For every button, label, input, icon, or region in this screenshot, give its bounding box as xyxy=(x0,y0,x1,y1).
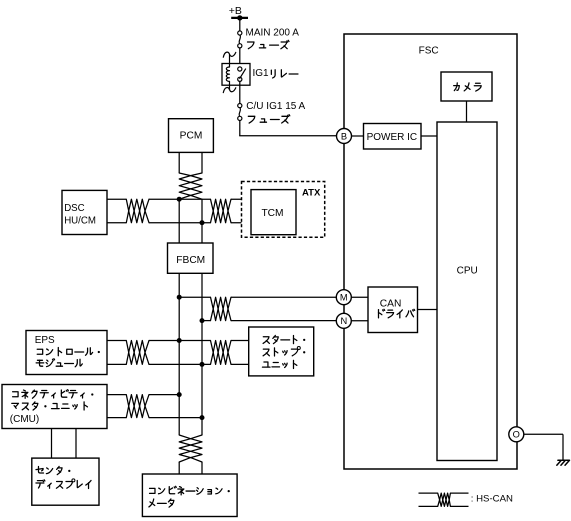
wire twist to start-stop unit xyxy=(231,341,249,365)
junction dot CMU top xyxy=(177,392,182,397)
ATX dashed box xyxy=(242,182,325,238)
trunk wires T1 to FBCM xyxy=(179,199,202,243)
trunk wires FBCM down xyxy=(179,273,202,435)
wire camera to CPU xyxy=(466,101,468,122)
twisted pair DSC left xyxy=(126,199,149,223)
label DSC HU/CM xyxy=(64,203,96,226)
label camera xyxy=(454,83,482,91)
PCM box xyxy=(169,119,214,153)
junction dot DSC top xyxy=(177,197,182,202)
FBCM box xyxy=(168,243,214,273)
wire PCM to trunk twist xyxy=(179,152,202,173)
wire trunk to M/N twist xyxy=(179,297,210,320)
wire +B to fuse F1 xyxy=(239,18,241,31)
node O xyxy=(509,427,524,442)
TCM box xyxy=(251,190,296,235)
wire trunk to combination meter xyxy=(179,462,202,474)
twisted pair to FSC xyxy=(211,297,232,320)
wire node O to ground xyxy=(524,434,563,460)
wire node B to POWER IC xyxy=(352,135,364,137)
svg-text:: HS-CAN: : HS-CAN xyxy=(471,494,513,505)
wire EPS to twist xyxy=(107,341,126,365)
junction dot M-wire xyxy=(177,295,182,300)
relay switch contacts xyxy=(238,67,246,82)
center display box xyxy=(32,458,99,505)
wire CMU to twist xyxy=(107,395,126,418)
label MAIN 200 A fuse xyxy=(246,27,300,48)
svg-text:HU/CM: HU/CM xyxy=(64,215,96,226)
wire DSC to twist xyxy=(107,199,126,223)
combination meter box xyxy=(142,474,237,517)
label FBCM xyxy=(176,255,205,266)
ground chassis symbol xyxy=(557,460,570,465)
wire node M to CAN driver xyxy=(351,296,368,298)
wire twist to nodes M N xyxy=(231,297,336,320)
svg-text:ATX: ATX xyxy=(302,187,321,198)
twisted pair EPS right xyxy=(211,341,232,365)
fuse MAIN 200 A xyxy=(238,31,242,48)
wire EPS twist to trunk xyxy=(149,341,211,365)
label combination meter xyxy=(149,486,230,507)
wire node N to CAN driver xyxy=(351,320,368,322)
twisted pair EPS left xyxy=(126,341,149,365)
POWER IC box xyxy=(364,124,422,150)
legend twisted pair symbol xyxy=(419,493,469,506)
wire fuse F1 to relay switch xyxy=(239,48,241,67)
svg-text:N: N xyxy=(340,316,347,326)
label EPS control module xyxy=(35,335,100,367)
label TCM xyxy=(261,208,283,219)
svg-text:POWER IC: POWER IC xyxy=(367,132,418,143)
legend label HS-CAN xyxy=(471,494,513,505)
label FSC xyxy=(419,46,439,57)
EPS control module box xyxy=(26,331,107,375)
twisted pair CMU xyxy=(126,395,149,418)
svg-text:TCM: TCM xyxy=(261,208,283,219)
svg-text:CPU: CPU xyxy=(457,266,478,277)
svg-text:(CMU): (CMU) xyxy=(10,414,39,425)
wire CMU to center display xyxy=(52,429,77,459)
junction dot EPS bottom xyxy=(200,362,205,367)
svg-text:DSC: DSC xyxy=(64,203,84,214)
relay IG1 box xyxy=(222,64,250,86)
node +B battery terminal xyxy=(229,5,248,21)
svg-text:PCM: PCM xyxy=(180,131,203,142)
svg-text:IG1: IG1 xyxy=(253,68,270,79)
junction dot EPS top xyxy=(177,338,182,343)
label CAN driver xyxy=(378,299,414,318)
node N xyxy=(336,313,351,328)
junction dot DSC bottom xyxy=(200,220,205,225)
wire twist to TCM xyxy=(231,199,251,223)
label CPU xyxy=(457,266,478,277)
label start-stop unit xyxy=(262,335,305,368)
wire fuse F2 to node B xyxy=(239,121,336,136)
junction dot N-wire xyxy=(200,318,205,323)
svg-text:EPS: EPS xyxy=(35,335,55,346)
wire CAN driver to CPU xyxy=(418,309,438,311)
twisted pair trunk T2 xyxy=(179,435,202,462)
relay coil L1 xyxy=(226,67,229,81)
wire POWER IC to CPU xyxy=(421,135,437,137)
label POWER IC xyxy=(367,132,418,143)
node B xyxy=(337,129,352,144)
svg-text:C/U IG1 15 A: C/U IG1 15 A xyxy=(246,101,305,112)
label C/U IG1 15 A fuse xyxy=(246,101,305,123)
label connectivity master unit (CMU) xyxy=(10,390,94,425)
relay coil branch top hook xyxy=(223,52,236,67)
junction dot CMU bottom xyxy=(200,415,205,420)
camera box xyxy=(441,72,492,101)
wire DSC twist to trunk and beyond xyxy=(149,199,211,223)
wire relay to fuse F2 xyxy=(239,81,241,103)
label center display xyxy=(36,466,91,488)
start-stop unit box xyxy=(249,327,314,376)
svg-text:FSC: FSC xyxy=(419,46,439,57)
DSC HU/CM box xyxy=(62,190,107,234)
node M xyxy=(336,290,351,305)
svg-text:CAN: CAN xyxy=(380,299,402,310)
label IG1 relay xyxy=(253,68,298,79)
label PCM xyxy=(180,131,203,142)
CAN driver box xyxy=(368,287,418,333)
svg-text:O: O xyxy=(513,430,520,440)
svg-text:FBCM: FBCM xyxy=(176,255,205,266)
svg-text:MAIN 200 A: MAIN 200 A xyxy=(246,27,300,38)
relay coil branch bottom hook xyxy=(223,81,236,92)
wire CMU twist to trunk xyxy=(149,395,202,418)
svg-text:M: M xyxy=(340,293,348,303)
svg-text:B: B xyxy=(341,131,347,141)
CPU box xyxy=(437,122,497,461)
label ATX xyxy=(302,187,321,198)
FSC module box xyxy=(344,34,517,469)
fuse C/U IG1 15 A xyxy=(238,104,242,121)
twisted pair trunk T1 xyxy=(179,173,202,199)
svg-text:+B: +B xyxy=(229,5,242,17)
connectivity master unit box xyxy=(2,385,107,429)
twisted pair DSC right xyxy=(211,199,232,223)
